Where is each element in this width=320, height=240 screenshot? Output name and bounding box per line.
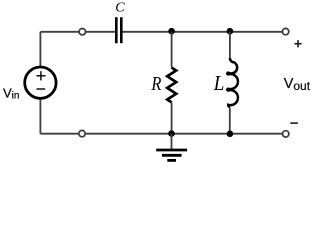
svg-text:R: R xyxy=(151,73,162,95)
plus sign at Vout top xyxy=(295,40,302,47)
wire: left vertical from source bottom to bottom wire xyxy=(39,99,41,134)
inductor L top lead xyxy=(229,32,231,59)
minus sign at Vout bottom xyxy=(290,122,298,124)
plus sign inside source xyxy=(36,71,45,80)
node junction dot at top of R xyxy=(168,28,175,35)
node junction dot at bottom of R / ground xyxy=(168,130,175,137)
svg-text:L: L xyxy=(213,71,225,95)
ground stub wire xyxy=(171,134,173,150)
wire: top horizontal from capacitor to right terminal xyxy=(123,31,283,33)
minus sign inside source xyxy=(37,88,46,90)
voltage source Vin circle xyxy=(25,67,56,98)
wire: bottom horizontal from source corner to bottom-left terminal xyxy=(40,133,78,135)
resistor R top lead xyxy=(171,32,173,68)
terminal: top-left open circle xyxy=(79,29,85,35)
resistor R zigzag xyxy=(167,68,176,103)
inductor L bottom lead xyxy=(229,108,231,134)
wire: left vertical from top wire to source top xyxy=(39,32,41,67)
inductor L coil xyxy=(227,58,238,107)
wire: top horizontal from left terminal to capacitor xyxy=(86,31,116,33)
capacitor C plates xyxy=(116,17,121,43)
node junction dot at top of L xyxy=(227,28,234,35)
terminal: bottom-right open circle xyxy=(283,131,289,137)
ground symbol bars xyxy=(156,150,187,160)
wire: bottom horizontal from bottom-left terminal to bottom-right terminal xyxy=(85,133,282,135)
wire: top horizontal from source corner to left terminal xyxy=(40,31,79,33)
svg-text:Vout: Vout xyxy=(284,76,311,93)
svg-text:Vin: Vin xyxy=(3,86,19,102)
svg-text:C: C xyxy=(115,1,125,16)
terminal: bottom-left open circle xyxy=(79,130,85,136)
node junction dot at bottom of L xyxy=(227,131,234,138)
terminal: top-right open circle xyxy=(282,28,288,34)
resistor R bottom lead xyxy=(171,102,173,133)
